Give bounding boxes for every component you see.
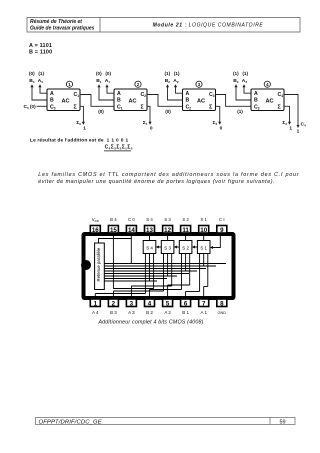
wire bundle 4 (104, 270, 197, 272)
full adder block 4 (AC ④) (251, 89, 284, 111)
pin 1 (A 4) (90, 299, 100, 315)
wire B4 long vertical (112, 239, 114, 289)
svg-text:B = 1100: B = 1100 (29, 50, 52, 56)
wire staircase 5 (150, 254, 182, 297)
pin 5 (A 2) (163, 299, 173, 315)
svg-text:C2: C2 (186, 104, 192, 110)
wire staircase 7 (186, 254, 200, 297)
wire bundle 1 (104, 263, 226, 265)
svg-text:Résumé de Théorie et: Résumé de Théorie et (30, 19, 82, 25)
svg-text:C4Σ3Σ2Σ1Σ0: C4Σ3Σ2Σ1Σ0 (105, 144, 133, 150)
paragraph (38, 172, 299, 185)
svg-text:B: B (254, 98, 258, 104)
wire carry C3 (216, 95, 252, 115)
svg-text:Σ2: Σ2 (213, 120, 218, 126)
svg-text:B3: B3 (233, 78, 239, 84)
wire bundle 2 (104, 265, 216, 267)
svg-text:B 3: B 3 (110, 310, 117, 315)
svg-text:S 3: S 3 (164, 245, 171, 250)
svg-text:S 4: S 4 (146, 245, 153, 250)
svg-text:11: 11 (182, 227, 189, 234)
svg-text:AC: AC (128, 99, 136, 105)
pin 8 (GND) (217, 299, 227, 315)
wire staircase 1 (95, 254, 145, 297)
node B0 A0 labels (29, 71, 44, 84)
wire input A3 (242, 84, 251, 93)
wire input A2 (174, 84, 183, 93)
circled label 1 (66, 81, 72, 87)
svg-text:(1): (1) (164, 71, 170, 76)
svg-text:0: 0 (150, 125, 153, 131)
svg-text:A1: A1 (105, 78, 111, 84)
svg-text:B 2: B 2 (146, 310, 153, 315)
pin 9 (C I) (217, 217, 227, 234)
wire carry S 1 to S 2 (192, 246, 198, 249)
svg-text:C I: C I (219, 217, 225, 222)
svg-text:(0): (0) (29, 71, 35, 76)
svg-text:Retenue parallèle: Retenue parallèle (96, 247, 101, 281)
wire retenue carry to S 4 (149, 254, 151, 281)
pin-1 notch (81, 260, 91, 270)
svg-text:Additionneur complet 4 bits CM: Additionneur complet 4 bits CMOS (4008) (97, 320, 203, 326)
svg-text:(1): (1) (242, 71, 248, 76)
wire sum S2 output (213, 106, 223, 131)
svg-text:S 1: S 1 (200, 245, 207, 250)
svg-text:S 4: S 4 (146, 217, 153, 222)
wire carry C1 (80, 95, 114, 115)
svg-text:AC: AC (61, 99, 69, 105)
svg-text:1: 1 (94, 300, 98, 307)
circled label 3 (196, 81, 202, 87)
svg-text:(0): (0) (96, 71, 102, 76)
svg-text:4: 4 (148, 300, 152, 307)
wire retenue carry to S 3 (167, 254, 169, 276)
adder cell S 1 (197, 233, 210, 254)
svg-text:14: 14 (128, 227, 135, 234)
svg-text:(1): (1) (174, 71, 180, 76)
svg-text:12: 12 (164, 227, 171, 234)
retenue parallele block (95, 243, 105, 290)
wire input B1 (97, 84, 114, 100)
full adder block 2 (AC ②) (114, 89, 147, 111)
adder cell S 2 (179, 233, 192, 254)
svg-text:B: B (186, 98, 190, 104)
svg-text:9: 9 (220, 227, 224, 234)
svg-text:AC: AC (197, 99, 205, 105)
svg-text:Les familles CMOS et TTL compo: Les familles CMOS et TTL comportent des … (38, 172, 299, 178)
wire sum S1 output (143, 106, 153, 131)
wire pin to S 3 (167, 233, 169, 241)
svg-text:1: 1 (289, 125, 292, 131)
pin 3 (A 3) (126, 299, 136, 315)
wire pin to S 2 (185, 233, 187, 241)
svg-text:C3: C3 (209, 92, 215, 98)
svg-text:16: 16 (92, 227, 99, 234)
svg-text:(1): (1) (237, 109, 243, 114)
wire input B0 (30, 84, 47, 100)
operand values (29, 43, 52, 56)
svg-text:B: B (117, 98, 121, 104)
svg-text:C2: C2 (141, 92, 147, 98)
wire carry S 3 to S 4 (156, 246, 162, 249)
svg-text:(0): (0) (105, 71, 111, 76)
svg-text:A3: A3 (242, 78, 248, 84)
svg-text:59: 59 (279, 419, 285, 425)
pin 7 (A 1) (199, 299, 209, 315)
wire carry C4 output (284, 95, 306, 135)
svg-text:B: B (50, 98, 54, 104)
svg-text:B2: B2 (165, 78, 171, 84)
svg-text:(0): (0) (30, 104, 36, 109)
svg-text:1: 1 (83, 125, 86, 131)
full adder block 1 (AC ①) (47, 89, 80, 111)
node B3 A3 labels (233, 71, 248, 84)
svg-text:B 4: B 4 (110, 217, 117, 222)
node B1 A1 labels (96, 71, 111, 84)
node B2 A2 labels (164, 71, 179, 84)
svg-text:Le résultat de l'addition est: Le résultat de l'addition est de (30, 138, 104, 144)
svg-text:A 3: A 3 (128, 310, 135, 315)
svg-text:A: A (50, 91, 54, 97)
svg-text:S 2: S 2 (182, 245, 189, 250)
svg-text:1 1 0 0 1: 1 1 0 0 1 (107, 138, 129, 144)
svg-text:15: 15 (110, 227, 117, 234)
svg-text:C 0: C 0 (128, 217, 135, 222)
wire staircase 4 (131, 254, 171, 297)
svg-text:B0: B0 (29, 78, 35, 84)
pin 6 (B 1) (181, 299, 191, 315)
svg-text:6: 6 (184, 300, 188, 307)
svg-text:A 4: A 4 (92, 310, 99, 315)
svg-text:(1): (1) (38, 71, 44, 76)
svg-text:C0: C0 (50, 104, 56, 110)
svg-text:VDD: VDD (92, 217, 100, 223)
svg-text:C4: C4 (301, 122, 307, 128)
svg-text:Module 21 : LOGIQUE COMBINATOI: Module 21 : LOGIQUE COMBINATOIRE (153, 23, 264, 29)
wire bundle 3 (104, 268, 206, 270)
svg-text:A2: A2 (173, 78, 179, 84)
svg-text:A: A (254, 91, 258, 97)
svg-text:10: 10 (200, 227, 207, 234)
svg-text:A 2: A 2 (164, 310, 171, 315)
wire C0/B4 to retenue (99, 236, 132, 264)
svg-text:S 1: S 1 (200, 217, 207, 222)
svg-text:5: 5 (166, 300, 170, 307)
wire CI (pin 9) to S 1 (210, 233, 220, 249)
wire input A1 (105, 84, 114, 93)
circled label 4 (264, 81, 270, 87)
wire staircase 3 (113, 254, 163, 297)
svg-text:A 1: A 1 (200, 310, 207, 315)
pin 16 (VDD) (90, 217, 100, 234)
svg-text:2: 2 (112, 300, 116, 307)
pin 14 (C 0) (126, 217, 136, 234)
wire sum S0 output (76, 106, 86, 131)
wire bundle 8 (104, 280, 157, 282)
svg-text:8: 8 (220, 300, 224, 307)
pin 2 (B 3) (108, 299, 118, 315)
node C0 input (24, 104, 48, 110)
wire staircase 6 (168, 254, 190, 297)
wire retenue carry to S 1 (203, 254, 205, 266)
footer table (36, 418, 296, 426)
pin 10 (S 1) (199, 217, 209, 234)
svg-text:(0): (0) (98, 109, 104, 114)
svg-text:OFPPT/DRIF/CDC_GE: OFPPT/DRIF/CDC_GE (39, 419, 102, 425)
wire bundle 5 (104, 273, 189, 275)
svg-text:A0: A0 (38, 78, 44, 84)
svg-text:(1): (1) (233, 71, 239, 76)
svg-text:1: 1 (297, 129, 300, 135)
wire bundle 7 (104, 278, 167, 280)
svg-text:Σ1: Σ1 (143, 120, 148, 126)
svg-text:GND: GND (217, 310, 226, 315)
wire input A0 (38, 84, 47, 93)
wire input B2 (166, 84, 183, 100)
wire bundle 6 (104, 275, 177, 277)
svg-text:13: 13 (146, 227, 153, 234)
svg-text:(0): (0) (165, 109, 171, 114)
wire retenue carry to S 2 (185, 254, 187, 271)
wire input B3 (234, 84, 251, 100)
wire staircase 2 (113, 254, 153, 289)
svg-text:A: A (117, 91, 121, 97)
result text (30, 138, 133, 151)
adder cell S 3 (161, 233, 174, 254)
svg-text:S 3: S 3 (164, 217, 171, 222)
svg-text:C1: C1 (74, 92, 80, 98)
wire pin to S 4 (149, 233, 151, 241)
wire carry S 2 to S 3 (174, 246, 179, 249)
IC 4008 body (82, 232, 236, 300)
svg-text:0: 0 (220, 125, 223, 131)
pin 12 (S 3) (163, 217, 173, 234)
svg-text:3: 3 (130, 300, 134, 307)
svg-text:7: 7 (202, 300, 206, 307)
pin 13 (S 4) (145, 217, 155, 234)
svg-text:C4: C4 (278, 92, 284, 98)
svg-text:B 1: B 1 (182, 310, 189, 315)
pin 15 (B 4) (108, 217, 118, 234)
svg-text:AC: AC (265, 99, 273, 105)
svg-text:Σ3: Σ3 (282, 120, 287, 126)
svg-text:C0: C0 (24, 104, 30, 110)
header table (27, 18, 300, 33)
svg-text:Σ0: Σ0 (76, 120, 81, 126)
svg-text:C3: C3 (254, 104, 260, 110)
adder cell S 4 (143, 233, 156, 254)
circled label 2 (135, 81, 141, 87)
full adder block 3 (AC ③) (183, 89, 216, 111)
svg-text:Guide de travaux pratiques: Guide de travaux pratiques (30, 26, 95, 32)
wire staircase 8 (204, 254, 208, 297)
svg-text:A: A (186, 91, 190, 97)
svg-text:S 2: S 2 (182, 217, 189, 222)
svg-text:A = 1101: A = 1101 (29, 43, 52, 49)
wire sum S3 output (282, 106, 292, 131)
wire carry C2 (147, 95, 183, 115)
pin 4 (B 2) (145, 299, 155, 315)
svg-text:C1: C1 (117, 104, 123, 110)
wire pin to S 1 (203, 233, 205, 241)
svg-text:éviter de manipuler une quanti: éviter de manipuler une quantité énorme … (38, 179, 275, 185)
pin 11 (S 2) (181, 217, 191, 234)
svg-text:B1: B1 (96, 78, 102, 84)
